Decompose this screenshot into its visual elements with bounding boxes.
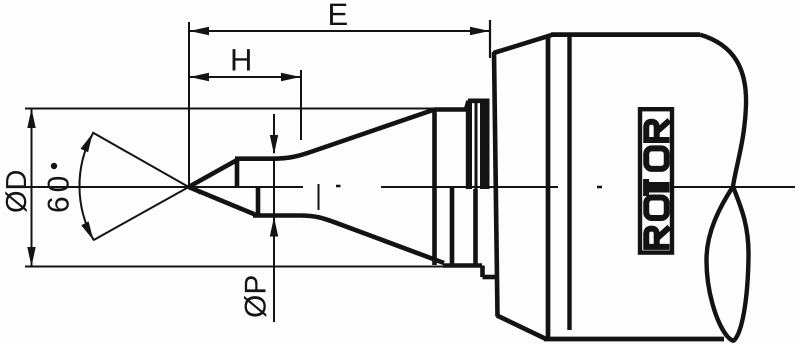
- outline: upper point face: [189, 160, 237, 187]
- dim H right arrow: [281, 73, 301, 81]
- svg-text:E: E: [328, 0, 349, 32]
- outline: nut top edge: [468, 99, 490, 104]
- body vertical edge 2: [567, 36, 571, 330]
- body vertical edge 1: [546, 35, 551, 339]
- logo text ROTOR: [644, 120, 670, 247]
- 60deg arc lower arrowhead: [81, 221, 93, 240]
- dim E right extension line: [489, 20, 491, 58]
- outline: lower point face: [189, 187, 255, 215]
- dim ØD dimension line: [31, 109, 33, 267]
- groove band 2: [475, 101, 478, 189]
- body front face: [494, 52, 498, 317]
- dim E right arrow: [470, 27, 490, 35]
- logo box: [640, 109, 672, 252]
- centerline: [25, 186, 795, 187]
- outline: upper pilot vertical edge: [235, 159, 240, 187]
- svg-text:60: 60: [43, 172, 76, 213]
- outline: pilot bottom and cone bottom edge: [253, 216, 444, 264]
- break line upper arc: [700, 35, 746, 187]
- outline: step bottom horizontal: [483, 275, 496, 280]
- dim H left arrow: [190, 73, 210, 81]
- groove band 3: [480, 101, 490, 189]
- 60deg arc: [79, 134, 93, 240]
- dim ØD top extension line: [25, 108, 434, 110]
- dim ØP dimension line upper: [273, 114, 275, 153]
- dim ØP lower arrow (up): [270, 217, 278, 237]
- svg-text:H: H: [230, 43, 252, 78]
- dim H right extension line: [300, 70, 302, 140]
- tick below centerline on cone: [318, 184, 320, 210]
- outline: lower vertical edge x475: [473, 189, 478, 265]
- outline: pilot top and cone top edge: [235, 110, 433, 159]
- outline: collar bottom edge: [443, 263, 482, 268]
- svg-text:ØP: ØP: [240, 275, 273, 318]
- 60deg arc upper arrowhead: [81, 133, 93, 152]
- outline: lower vertical edge x452: [450, 187, 455, 265]
- svg-text:ØD: ØD: [1, 170, 33, 214]
- body top chamfer: [494, 35, 554, 53]
- dim ØP upper arrow (down): [270, 135, 278, 155]
- 60deg upper construction line: [92, 132, 200, 194]
- body bottom chamfer: [497, 316, 546, 340]
- break line lower leaf: [706, 187, 748, 341]
- dim ØD bottom extension line: [25, 266, 460, 268]
- outline: lower pilot vertical edge: [256, 187, 261, 216]
- body top edge: [551, 32, 700, 37]
- outline: collar top edge: [434, 107, 466, 112]
- dim ØP dimension line through part: [273, 160, 275, 322]
- outline: collar step chamfer: [466, 101, 469, 110]
- dim E left extension line: [188, 22, 190, 186]
- dim E dimension line: [189, 30, 490, 32]
- groove band 1: [466, 103, 472, 189]
- 60deg lower construction line: [93, 180, 200, 240]
- dim ØD bottom arrow: [27, 247, 35, 267]
- dim E left arrow: [190, 27, 210, 35]
- outline: step down vertical x484: [480, 266, 485, 278]
- dim ØD top arrow: [27, 109, 35, 129]
- body bottom edge: [544, 337, 724, 342]
- outline: collar face vertical: [432, 108, 437, 266]
- dim H dimension line: [189, 76, 300, 78]
